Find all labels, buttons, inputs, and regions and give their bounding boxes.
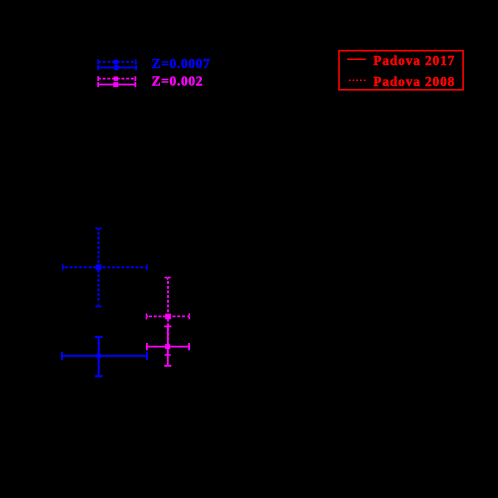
legend box xyxy=(339,51,463,90)
bottom curly cap xyxy=(95,305,101,307)
data point: magenta dashed cross (Padova 2008, Z=0.002) xyxy=(149,281,187,352)
svg-text:Padova 2017: Padova 2017 xyxy=(373,53,455,68)
legend solid line sample xyxy=(347,58,366,60)
horizontal errorbar xyxy=(149,315,187,317)
sample marker: blue square on dashed xyxy=(114,60,119,65)
data point: blue dashed cross (Padova 2008, Z=0.0007) xyxy=(65,232,145,303)
sample errorbar: magenta solid (Z=0.002, Padova 2017) xyxy=(98,82,136,87)
top curly cap xyxy=(165,278,171,280)
sample errorbar: blue dashed (Z=0.0007, Padova 2008) xyxy=(98,60,136,65)
horizontal errorbar xyxy=(65,266,145,268)
marker: magenta square xyxy=(165,344,170,349)
right curly cap xyxy=(188,313,189,319)
bottom cap xyxy=(95,375,103,377)
vertical errorbar xyxy=(98,337,100,376)
bottom curly cap xyxy=(165,354,171,356)
left curly cap xyxy=(63,264,64,270)
svg-text:Padova 2008: Padova 2008 xyxy=(373,74,455,89)
left cap xyxy=(61,352,63,360)
horizontal errorbar xyxy=(62,355,147,357)
sample marker: magenta square on dashed xyxy=(114,77,118,81)
sample marker: blue circle on solid xyxy=(113,65,119,71)
marker: blue square xyxy=(96,264,102,270)
top cap xyxy=(95,336,103,338)
legend dotted line sample xyxy=(349,79,366,81)
top cap xyxy=(164,325,171,327)
right curly cap xyxy=(146,264,147,270)
left cap xyxy=(146,343,148,350)
sample errorbar: magenta dashed (Z=0.002, Padova 2008) xyxy=(98,76,136,81)
horizontal errorbar xyxy=(147,346,189,348)
sample errorbar: blue solid (Z=0.0007, Padova 2017) xyxy=(98,65,136,70)
vertical errorbar xyxy=(98,232,100,303)
svg-text:Z=0.002: Z=0.002 xyxy=(152,73,204,88)
data point: blue solid cross (Padova 2017, Z=0.0007) xyxy=(62,337,147,376)
bottom cap xyxy=(164,365,171,367)
left curly cap xyxy=(146,313,147,319)
right cap xyxy=(188,343,190,350)
right cap xyxy=(146,352,148,360)
sample marker: magenta square on solid xyxy=(113,82,118,87)
vertical errorbar xyxy=(167,326,169,365)
marker: blue circle xyxy=(96,353,101,358)
marker: magenta square xyxy=(165,314,171,320)
vertical errorbar xyxy=(167,281,169,352)
top curly cap xyxy=(95,228,101,230)
data point: magenta solid cross (Padova 2017, Z=0.002) xyxy=(147,326,189,365)
svg-text:Z=0.0007: Z=0.0007 xyxy=(152,56,211,71)
